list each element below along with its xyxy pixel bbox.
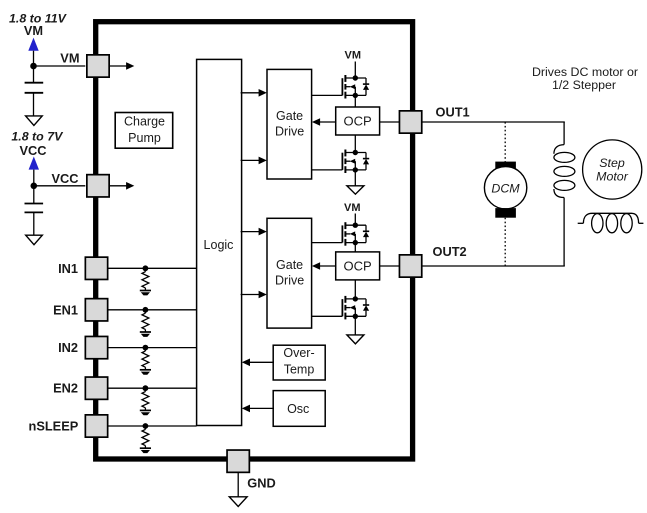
wire GND pin to ground	[237, 472, 239, 496]
svg-text:OCP: OCP	[344, 114, 372, 129]
ground IN2 pulldown	[140, 370, 151, 375]
svg-text:1.8 to 7V: 1.8 to 7V	[11, 129, 64, 143]
svg-text:Temp: Temp	[284, 363, 315, 377]
wire gate drive 1 to Q1 gate	[312, 94, 343, 96]
wire logic to gate drive arrow 2	[241, 159, 260, 161]
label application	[532, 65, 638, 92]
gate drive 2	[267, 218, 312, 328]
svg-text:Step: Step	[599, 156, 625, 170]
svg-text:VM: VM	[345, 50, 362, 62]
svg-text:Drive: Drive	[275, 274, 304, 288]
pin GND	[227, 450, 249, 472]
wire VCC internal arrow	[108, 185, 128, 187]
wire EN2 to logic	[108, 387, 197, 389]
wire IN2 to logic	[108, 347, 197, 349]
inductor stepper winding A	[554, 145, 575, 198]
transistor Q3 high-side	[342, 222, 369, 246]
ground bridge 2	[347, 335, 364, 344]
svg-text:Over-: Over-	[283, 346, 314, 360]
wire EN1 to logic	[108, 309, 197, 311]
transistor Q1 high-side	[342, 75, 369, 99]
pin EN1	[85, 299, 107, 321]
wire over-temp to logic arrow	[249, 361, 274, 363]
ground bridge 1	[347, 186, 364, 194]
pin OUT1	[399, 111, 421, 133]
svg-text:Charge: Charge	[124, 115, 165, 129]
node nSLEEP junction	[143, 423, 149, 429]
resistor IN1 pulldown	[142, 268, 149, 290]
wire logic to gate drive arrow 3	[241, 231, 260, 233]
svg-text:Drive: Drive	[275, 125, 304, 139]
OCP block 2	[336, 252, 380, 280]
wire OCP2 to Q4 drain	[354, 280, 356, 299]
wire VM supply to pin	[34, 65, 86, 67]
wire winding down to OUT2	[563, 198, 565, 267]
inductor stepper winding B	[578, 213, 644, 232]
svg-text:EN1: EN1	[53, 302, 78, 317]
pin EN2	[85, 377, 107, 399]
node IN2 junction	[143, 345, 149, 351]
wire VCC supply to pin	[34, 185, 86, 187]
svg-text:GND: GND	[247, 476, 275, 491]
ground EN2 pulldown	[140, 410, 151, 415]
pin nSLEEP	[85, 415, 107, 437]
wire VM to Q1 drain	[354, 62, 356, 79]
resistor EN1 pulldown	[142, 310, 149, 332]
pin IN2	[85, 336, 107, 358]
motor step circle	[583, 140, 642, 199]
ground VM bypass	[26, 116, 43, 126]
wire logic to gate drive arrow 1	[241, 92, 260, 94]
svg-text:DCM: DCM	[491, 181, 520, 195]
svg-text:OUT2: OUT2	[433, 244, 467, 259]
logic block U-LOGIC	[197, 59, 242, 425]
OCP block 1	[336, 107, 380, 135]
wire OUT1 down to winding	[563, 122, 565, 145]
wire OCP2 to OUT2 pin	[380, 265, 400, 267]
supply arrow VCC	[29, 157, 39, 170]
node VM supply	[30, 63, 37, 70]
svg-text:VM: VM	[24, 23, 43, 38]
wire gate drive 2 to Q4 gate	[312, 315, 343, 317]
wire OCP1 to Q2 drain	[354, 135, 356, 153]
svg-text:Logic: Logic	[204, 238, 234, 252]
wire OUT1	[422, 121, 565, 123]
svg-text:Osc: Osc	[287, 402, 309, 416]
supply arrow VM	[28, 38, 38, 51]
svg-text:OCP: OCP	[344, 258, 372, 273]
charge pump CP	[115, 113, 173, 149]
wire OCP2 to gate drive 2 arrow	[319, 265, 336, 267]
gate drive 1	[267, 69, 312, 179]
wire Q2 source to ground	[354, 170, 356, 186]
svg-text:Gate: Gate	[276, 258, 303, 272]
pin OUT2	[399, 255, 421, 277]
wire OCP1 to gate drive 1 arrow	[319, 121, 336, 123]
pin VCC	[87, 175, 109, 197]
IC boundary	[96, 22, 413, 459]
osc block	[273, 391, 325, 427]
svg-text:IN2: IN2	[58, 340, 78, 355]
pin IN1	[85, 257, 107, 279]
node IN1 junction	[143, 265, 149, 271]
resistor IN2 pulldown	[142, 348, 149, 370]
svg-text:VCC: VCC	[19, 143, 46, 158]
ground GND	[229, 497, 247, 507]
resistor EN2 pulldown	[142, 388, 149, 410]
svg-text:VM: VM	[60, 50, 79, 65]
svg-text:Gate: Gate	[276, 109, 303, 123]
capacitor VCC bypass	[25, 186, 44, 235]
wire OUT2	[422, 265, 565, 267]
wire Q4 source to ground	[354, 316, 356, 335]
svg-text:IN1: IN1	[58, 261, 78, 276]
svg-text:VCC: VCC	[51, 171, 78, 186]
svg-text:VM: VM	[344, 202, 361, 214]
over-temp block	[273, 345, 325, 380]
transistor Q4 low-side	[342, 296, 369, 320]
wire OCP1 to OUT1 pin	[380, 121, 400, 123]
ground IN1 pulldown	[140, 291, 151, 296]
wire Q3 source to OCP2	[354, 243, 356, 252]
wire Q1 source to OCP1	[354, 95, 356, 107]
node VCC supply	[31, 183, 38, 190]
node EN2 junction	[143, 385, 149, 391]
wire VM to Q3 drain	[354, 214, 356, 226]
wire IN1 to logic	[108, 267, 197, 269]
svg-text:nSLEEP: nSLEEP	[29, 419, 79, 434]
wire gate drive 2 to Q3 gate	[312, 242, 343, 244]
transistor Q2 low-side	[342, 150, 369, 174]
wire DCM branch top (dashed)	[504, 122, 506, 162]
wire logic to gate drive arrow 4	[241, 294, 260, 296]
wire VM internal arrow	[108, 65, 128, 67]
svg-text:Pump: Pump	[128, 131, 161, 145]
resistor nSLEEP pulldown	[142, 426, 149, 448]
ground EN1 pulldown	[140, 332, 151, 337]
motor DCM	[484, 162, 526, 218]
wire nSLEEP to logic	[108, 425, 197, 427]
ground nSLEEP pulldown	[140, 448, 151, 453]
pin VM	[87, 55, 109, 77]
svg-text:Motor: Motor	[596, 170, 629, 184]
node EN1 junction	[143, 307, 149, 313]
svg-text:OUT1: OUT1	[436, 105, 470, 120]
capacitor VM bypass	[25, 66, 44, 116]
wire DCM branch bottom (dashed)	[504, 218, 506, 266]
wire gate drive 1 to Q2 gate	[312, 169, 343, 171]
ground VCC bypass	[26, 235, 43, 245]
wire osc to logic arrow	[249, 407, 274, 409]
svg-text:1/2 Stepper: 1/2 Stepper	[552, 78, 616, 92]
svg-text:EN2: EN2	[53, 381, 78, 396]
